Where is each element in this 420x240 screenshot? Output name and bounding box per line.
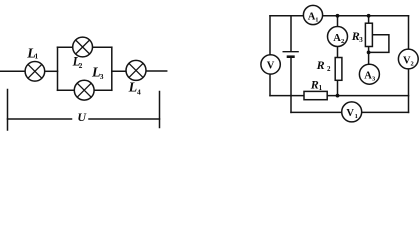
node: parallel box left junction / left vertical xyxy=(57,47,59,90)
svg-text:R: R xyxy=(310,77,319,91)
svg-text:1: 1 xyxy=(315,16,318,23)
label R1 xyxy=(310,77,323,92)
lamp L4 xyxy=(126,60,146,80)
resistor R1 box xyxy=(304,91,327,99)
lamp L1 xyxy=(25,62,45,82)
wire: top bus xyxy=(270,15,409,17)
battery cell long plate xyxy=(283,51,299,53)
wire: R2 to bus A xyxy=(337,80,339,95)
wire: main wire right segment after L4 xyxy=(146,70,167,72)
svg-text:2: 2 xyxy=(327,65,331,73)
lamp L3 xyxy=(74,80,94,100)
wire: R3 branch from top bus xyxy=(368,16,370,23)
svg-text:2: 2 xyxy=(341,38,344,45)
wire: bottom branch left segment to L3 xyxy=(58,89,75,91)
svg-text:2: 2 xyxy=(79,61,83,70)
junction dot: top bus / R3 branch xyxy=(367,14,371,18)
svg-text:4: 4 xyxy=(137,87,141,96)
wire: top branch left segment to L2 xyxy=(58,46,74,48)
resistor R2 box xyxy=(335,58,342,81)
wire: left circuit main wire, left segment into L1 xyxy=(0,70,26,72)
ammeter A2 xyxy=(328,27,348,47)
wire: left branch vertical (to voltmeter V) xyxy=(269,16,271,55)
ammeter A1 xyxy=(303,5,322,24)
resistor R3 box xyxy=(365,23,372,46)
label L3 xyxy=(91,66,104,81)
svg-text:2: 2 xyxy=(411,60,414,67)
wire: battery bottom to bus A xyxy=(290,57,292,96)
svg-text:3: 3 xyxy=(100,72,104,81)
label V1 xyxy=(346,108,357,120)
wire: R3 bottom to A3 xyxy=(368,47,370,65)
voltmeter V1 xyxy=(342,102,362,122)
wire: A2 to R2 xyxy=(337,46,339,57)
wire: bottom branch right segment from L3 xyxy=(94,89,112,91)
svg-text:3: 3 xyxy=(359,36,363,44)
lamp L2 xyxy=(73,37,93,57)
wire: main wire from box to L4 xyxy=(112,70,127,72)
label A1 xyxy=(308,11,319,23)
ammeter A3 xyxy=(359,64,379,84)
svg-text:U: U xyxy=(77,110,87,124)
svg-text:V: V xyxy=(267,61,275,72)
lamp L4 cross xyxy=(129,63,143,77)
label R3 xyxy=(351,29,363,44)
wire: battery junction down to bus B xyxy=(290,96,292,113)
voltage bracket right tick xyxy=(159,92,161,128)
svg-text:V: V xyxy=(346,108,354,119)
label A2 xyxy=(333,33,344,45)
lamp L3 cross xyxy=(77,83,91,97)
voltmeter V xyxy=(261,55,280,74)
wire: bus A horizontal (through R1) xyxy=(270,95,409,97)
voltage bracket left tick xyxy=(7,90,9,131)
wire: main wire from L1 to parallel-box left junction xyxy=(45,70,58,72)
lamp L2 cross xyxy=(76,40,90,54)
svg-text:1: 1 xyxy=(319,84,323,92)
wire: below voltmeter V down to bottom bus A xyxy=(269,74,271,96)
svg-text:L: L xyxy=(128,80,138,95)
voltmeter V2 xyxy=(398,49,418,69)
junction dot: R2 / bus A xyxy=(336,94,340,98)
wire: right branch vertical (through V2) xyxy=(408,16,410,50)
label A3 xyxy=(364,71,376,83)
svg-text:1: 1 xyxy=(35,51,39,60)
junction dot: top bus / A2 branch xyxy=(336,14,340,18)
voltage bracket horizontal left segment xyxy=(8,118,72,120)
wire: battery branch vertical from top bus xyxy=(290,16,292,51)
wire: top branch right segment from L2 xyxy=(92,46,111,48)
label R2 xyxy=(316,58,331,73)
svg-text:1: 1 xyxy=(355,113,358,120)
label V2 xyxy=(403,55,414,67)
wire: V2 bottom to bus B xyxy=(408,69,410,113)
lamp L1 cross xyxy=(28,64,42,78)
label L4 xyxy=(128,80,141,96)
junction dot: rheostat tap / A3 node xyxy=(367,51,371,55)
label L2 xyxy=(72,55,83,70)
node: parallel box right junction / right vertical xyxy=(111,47,113,90)
label L1 xyxy=(26,47,38,62)
wire: rheostat tap loop of R3 xyxy=(369,35,389,53)
wire: A2 branch from top bus xyxy=(337,16,339,27)
voltage bracket horizontal right segment xyxy=(89,118,160,120)
battery cell short plate xyxy=(287,55,295,58)
svg-text:R: R xyxy=(316,58,325,72)
wire: bus B horizontal (through V1) xyxy=(291,111,409,113)
